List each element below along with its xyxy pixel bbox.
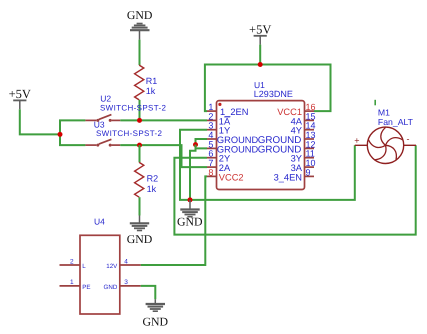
pin 3 1Y — [207, 129, 217, 131]
resistor R1 — [135, 65, 144, 100]
wire U3 to pin 2A (jog down) — [120, 145, 207, 167]
svg-text:1: 1 — [70, 279, 74, 286]
svg-text:9: 9 — [306, 167, 311, 177]
svg-text:+: + — [354, 135, 359, 145]
junction GND node — [188, 197, 193, 202]
IC U4 box — [80, 235, 120, 314]
wire U4 GND pin to ground — [141, 286, 156, 299]
wire +5V top to rail — [259, 45, 261, 65]
wire U2 to pin 1A — [120, 119, 207, 121]
resistor R2 — [135, 162, 144, 197]
ground GND (below R2) — [130, 216, 149, 231]
svg-text:3_4EN: 3_4EN — [274, 172, 302, 182]
svg-text:4: 4 — [124, 258, 128, 265]
svg-text:VCC2: VCC2 — [219, 172, 244, 182]
svg-text:GND: GND — [143, 314, 169, 328]
pin 2 L — [60, 264, 81, 266]
pin 14 4Y — [305, 129, 315, 131]
wire pin 1Y to GND node — [180, 130, 207, 200]
pin 15 4A — [305, 119, 315, 121]
svg-text:R2: R2 — [147, 174, 159, 184]
pin 9 3_4EN — [305, 175, 315, 177]
pin 13 GROUND — [305, 138, 315, 140]
pin 11 3Y — [305, 157, 315, 159]
wire pin GROUND(5) to junction — [196, 145, 208, 149]
svg-text:SWITCH-SPST-2: SWITCH-SPST-2 — [100, 103, 167, 112]
junction pins 4/5 ground — [193, 142, 198, 147]
op IC U1 L293DNE box — [217, 101, 305, 190]
wire node to U2 left — [60, 120, 85, 134]
wire pin GROUND(4) to junction — [196, 139, 208, 145]
svg-text:R1: R1 — [146, 76, 158, 86]
pin 16 VCC1 — [305, 110, 315, 112]
pin 3 GND — [120, 285, 141, 287]
svg-text:Fan_ALT: Fan_ALT — [378, 117, 414, 127]
svg-text:+5V: +5V — [249, 23, 271, 37]
wire rail to pin 1_2EN — [205, 65, 260, 112]
pin-1 marker dot — [218, 103, 221, 106]
pin 1 1_2EN — [207, 110, 217, 112]
name tick — [374, 100, 376, 106]
pin 10 3A — [305, 166, 315, 168]
junction node +5V switches — [58, 132, 63, 137]
pin 8 VCC2 — [207, 175, 217, 177]
wire U3 node down to R2 — [139, 145, 141, 162]
wire +5V left down to switch node — [20, 109, 60, 134]
junction +5V rail — [258, 62, 263, 67]
pin 4 12V — [120, 264, 141, 266]
switch U2 SWITCH-SPST-2 — [85, 115, 120, 121]
svg-text:-: - — [407, 134, 410, 144]
svg-text:8: 8 — [208, 167, 213, 177]
junction R2 / U3 wire — [137, 143, 142, 148]
pin 4 GROUND — [207, 138, 217, 140]
wire ground junction down to GND node — [190, 145, 196, 200]
pin 5 GROUND — [207, 147, 217, 149]
svg-text:GND: GND — [127, 232, 153, 246]
wire rail to pin VCC1 — [260, 65, 330, 112]
svg-text:PE: PE — [82, 284, 90, 291]
wire pin VCC2 down to U4 12V — [141, 176, 207, 265]
svg-text:L293DNE: L293DNE — [254, 89, 293, 99]
svg-text:GND: GND — [104, 284, 118, 291]
wire node to U3 left — [60, 134, 85, 145]
svg-text:U4: U4 — [94, 217, 105, 227]
ground GND (top, above R1) — [130, 24, 150, 40]
svg-text:L: L — [82, 263, 86, 270]
svg-text:M1: M1 — [378, 107, 390, 117]
pin 6 2Y — [207, 157, 217, 159]
svg-text:GND: GND — [177, 214, 203, 228]
pin 1 PE — [60, 285, 81, 287]
ground GND (mid, below junction) — [180, 200, 199, 217]
ground GND (below U4) — [146, 299, 165, 311]
motor M1 Fan_ALT — [355, 127, 416, 163]
svg-text:3: 3 — [124, 279, 128, 286]
svg-text:SWITCH-SPST-2: SWITCH-SPST-2 — [96, 129, 163, 138]
svg-text:1k: 1k — [146, 86, 156, 96]
wire GND node to fan + — [190, 145, 355, 200]
switch U3 SWITCH-SPST-2 — [85, 139, 120, 145]
svg-text:+5V: +5V — [9, 87, 31, 101]
wire R2 bottom to GND — [139, 197, 141, 215]
svg-text:1k: 1k — [147, 184, 157, 194]
svg-text:GND: GND — [127, 8, 153, 22]
pin 12 GROUND — [305, 147, 315, 149]
pin 7 2A — [207, 166, 217, 168]
svg-text:U2: U2 — [100, 93, 111, 103]
junction R1 / U2 wire — [137, 118, 142, 123]
wire R1 bottom to node — [139, 100, 141, 121]
wire R1 top to GND — [139, 40, 141, 66]
wire pin 2Y to fan - — [174, 145, 415, 234]
svg-text:2: 2 — [70, 258, 74, 265]
svg-text:12V: 12V — [106, 263, 118, 270]
svg-text:U3: U3 — [94, 120, 105, 130]
pin 2 1A — [207, 119, 217, 121]
